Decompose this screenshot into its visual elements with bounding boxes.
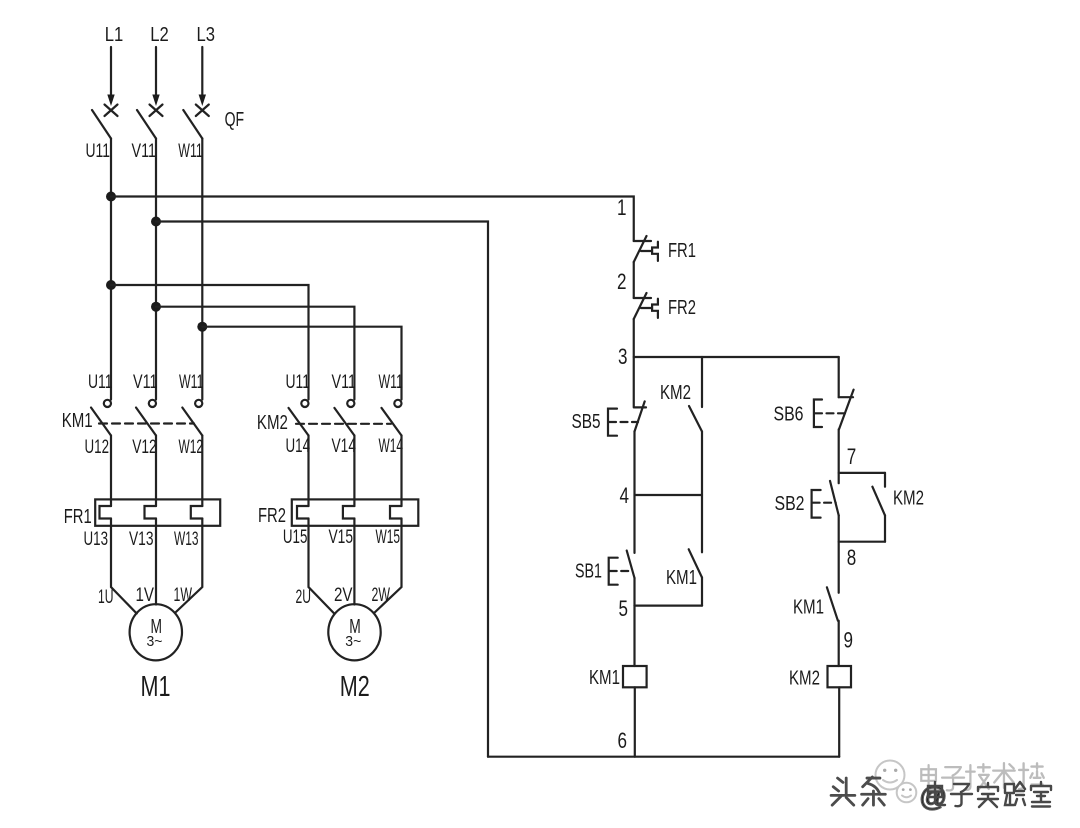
contactor KM1 pole W fixed contact bbox=[195, 400, 202, 407]
contactor KM1 pole U blade bbox=[91, 408, 111, 436]
motor M1 circle bbox=[130, 604, 182, 660]
svg-text:1U: 1U bbox=[98, 587, 114, 608]
svg-text:KM2: KM2 bbox=[893, 488, 924, 510]
svg-text:W11: W11 bbox=[178, 141, 203, 162]
svg-text:1W: 1W bbox=[174, 585, 193, 606]
svg-text:2W: 2W bbox=[372, 585, 391, 606]
thermal contact FR2 fixed tick bbox=[634, 297, 651, 299]
svg-text:SB6: SB6 bbox=[774, 404, 804, 426]
wire node 5 rung bbox=[635, 604, 703, 606]
FR2 heater element W bbox=[390, 506, 402, 519]
wire phase W vertical bbox=[201, 139, 203, 400]
wire KM2 aux to KM1 aux bbox=[701, 432, 703, 553]
pushbutton SB5 blade bbox=[635, 401, 645, 431]
pushbutton SB6 actuator bracket bbox=[814, 400, 822, 428]
wire KM1-W to FR1 bbox=[201, 436, 203, 507]
wire KM1-U to FR1 bbox=[110, 436, 112, 507]
svg-text:U15: U15 bbox=[283, 527, 308, 548]
svg-text:9: 9 bbox=[844, 628, 854, 653]
wire SB5 to SB1 bbox=[633, 432, 635, 553]
wire KM1 aux lower bbox=[701, 578, 703, 606]
wire FR2-W to motor M2 bbox=[375, 519, 402, 613]
wire KM2 aux branch upper bbox=[701, 357, 703, 407]
svg-text:V11: V11 bbox=[132, 141, 157, 162]
svg-text:8: 8 bbox=[847, 545, 857, 570]
wire KM1 coil to bottom bus bbox=[634, 687, 636, 756]
pushbutton SB1 blade bbox=[627, 551, 635, 579]
contactor KM2 pole U fixed contact bbox=[301, 400, 308, 407]
svg-text:FR1: FR1 bbox=[668, 240, 696, 262]
pushbutton SB5 fixed tick bbox=[635, 406, 647, 408]
wire SB1 to KM1 coil bbox=[633, 578, 635, 666]
svg-text:U11: U11 bbox=[286, 372, 311, 393]
svg-text:5: 5 bbox=[619, 596, 629, 621]
svg-text:7: 7 bbox=[847, 444, 857, 469]
svg-text:U12: U12 bbox=[85, 437, 110, 458]
svg-text:L2: L2 bbox=[150, 24, 169, 46]
pushbutton SB2 actuator link (dashed) bbox=[813, 502, 836, 504]
wire FR1-W to motor M1 bbox=[175, 519, 202, 613]
wire node1-node2 bbox=[633, 262, 635, 298]
pushbutton SB6 blade bbox=[839, 390, 854, 430]
FR2 heater element V bbox=[343, 506, 355, 519]
wire SB2 to KM1 interlock bbox=[838, 515, 840, 592]
contactor KM1 pole V blade bbox=[136, 408, 156, 436]
svg-text:W11: W11 bbox=[379, 372, 404, 393]
wire feeder V to M2 branch bbox=[156, 307, 354, 400]
wire KM2-V to FR2 bbox=[353, 436, 355, 507]
thermal relay FR1 box bbox=[95, 499, 220, 525]
contact KM1 aux blade bbox=[689, 549, 702, 577]
svg-text:V11: V11 bbox=[133, 372, 158, 393]
wire node 7 rung bbox=[839, 472, 885, 474]
wire KM2 coil to bottom bus bbox=[838, 687, 840, 756]
svg-text:KM2: KM2 bbox=[789, 668, 820, 690]
wire L1 incoming drop with arrowhead bbox=[107, 47, 114, 106]
svg-text:4: 4 bbox=[620, 483, 630, 508]
contact KM2 latch blade bbox=[872, 487, 885, 516]
wire node 4 rung bbox=[635, 494, 703, 496]
junction dot node V-control bbox=[151, 217, 161, 227]
wire phase V vertical bbox=[155, 139, 157, 400]
contactor KM1 pole W blade bbox=[182, 408, 202, 436]
contactor KM2 pole U blade bbox=[289, 408, 309, 436]
svg-text:KM1: KM1 bbox=[793, 597, 824, 619]
wire KM2 latch bottom rung bbox=[839, 541, 885, 543]
svg-text:U14: U14 bbox=[286, 436, 311, 457]
svg-text:V15: V15 bbox=[329, 527, 354, 548]
svg-text:W12: W12 bbox=[179, 437, 204, 458]
contact KM1 interlock blade bbox=[827, 587, 838, 620]
wire KM2 latch branch upper bbox=[884, 473, 886, 487]
svg-text:FR2: FR2 bbox=[258, 505, 286, 527]
thermal contact FR1 link tick bbox=[641, 250, 652, 252]
watermark dark text 条 bbox=[862, 777, 886, 805]
svg-text:1: 1 bbox=[617, 195, 627, 220]
svg-text:2V: 2V bbox=[334, 585, 353, 606]
svg-text:V13: V13 bbox=[129, 529, 154, 550]
watermark light text row (brand characters) bbox=[921, 763, 1044, 790]
svg-text:3: 3 bbox=[618, 344, 628, 369]
FR1 heater element U bbox=[100, 506, 112, 519]
svg-text:L3: L3 bbox=[197, 24, 216, 46]
svg-text:V12: V12 bbox=[132, 437, 157, 458]
wire KM2-U to FR2 bbox=[307, 436, 309, 507]
wire L2 incoming drop with arrowhead bbox=[152, 47, 159, 106]
pushbutton SB1 actuator bracket bbox=[609, 558, 618, 585]
svg-text:3~: 3~ bbox=[345, 633, 361, 650]
svg-text:L1: L1 bbox=[105, 24, 124, 46]
wire SB6 to node 7 bbox=[838, 429, 840, 483]
svg-text:W11: W11 bbox=[179, 372, 204, 393]
breaker QF pole 3 blade bbox=[183, 110, 202, 139]
junction dot node W-M2 bbox=[197, 322, 207, 332]
wire feeder W to M2 branch bbox=[202, 327, 401, 400]
svg-text:SB5: SB5 bbox=[572, 411, 601, 433]
wire FR2-V to motor M2 bbox=[353, 519, 355, 605]
pushbutton SB5 actuator bracket bbox=[608, 409, 617, 436]
svg-text:2U: 2U bbox=[296, 587, 312, 608]
motor M2 circle bbox=[328, 604, 380, 660]
contactor KM1 mechanical link (dashed) bbox=[99, 422, 194, 424]
svg-text:FR1: FR1 bbox=[64, 506, 92, 528]
thermal relay FR2 box bbox=[292, 499, 419, 525]
thermal contact FR1 fixed tick bbox=[634, 240, 651, 242]
pushbutton SB6 actuator link (dashed) bbox=[815, 412, 845, 414]
wire KM2-W to FR2 bbox=[400, 436, 402, 507]
thermal contact FR2 trip symbol bbox=[652, 299, 658, 318]
svg-text:SB2: SB2 bbox=[775, 493, 805, 515]
watermark dark text row (account characters) bbox=[928, 782, 1051, 807]
breaker QF pole 2 blade bbox=[137, 110, 156, 139]
thermal contact FR2 blade bbox=[634, 293, 647, 319]
pushbutton SB5 actuator link (dashed) bbox=[609, 421, 638, 423]
wire control feeder from U phase to node 1 bbox=[111, 197, 634, 242]
contactor KM2 pole W blade bbox=[382, 408, 402, 436]
contactor KM1 pole V fixed contact bbox=[149, 400, 156, 407]
svg-text:W13: W13 bbox=[174, 529, 199, 550]
svg-text:U11: U11 bbox=[86, 141, 111, 162]
wire L3 incoming drop with arrowhead bbox=[199, 47, 206, 106]
junction dot node V-M2 bbox=[151, 302, 161, 312]
wire KM1 interlock to KM2 coil bbox=[838, 621, 840, 666]
pushbutton SB2 actuator bracket bbox=[812, 490, 821, 518]
breaker QF pole 1 X contact bbox=[105, 105, 118, 117]
watermark logo circle large bbox=[876, 761, 905, 790]
breaker QF pole 1 blade bbox=[92, 110, 111, 139]
svg-text:W14: W14 bbox=[379, 436, 404, 457]
wire KM1-V to FR1 bbox=[155, 436, 157, 507]
wire feeder U to M2 branch bbox=[111, 285, 309, 400]
svg-text:M1: M1 bbox=[141, 671, 171, 703]
breaker QF pole 3 X contact bbox=[196, 105, 209, 117]
contactor KM2 pole V fixed contact bbox=[347, 400, 354, 407]
svg-text:FR2: FR2 bbox=[668, 297, 696, 319]
svg-text:KM1: KM1 bbox=[666, 567, 697, 589]
contact KM2 aux blade bbox=[689, 406, 702, 432]
svg-text:KM1: KM1 bbox=[62, 410, 93, 432]
svg-text:QF: QF bbox=[225, 109, 245, 131]
thermal contact FR1 trip symbol bbox=[652, 242, 658, 261]
wire phase U vertical bbox=[110, 139, 112, 400]
FR1 heater element W bbox=[191, 506, 203, 519]
wire KM2 latch lower bbox=[884, 515, 886, 541]
thermal contact FR1 blade bbox=[634, 236, 647, 262]
svg-text:3~: 3~ bbox=[147, 633, 163, 650]
wire FR1-V to motor M1 bbox=[155, 519, 157, 605]
svg-text:SB1: SB1 bbox=[575, 561, 602, 583]
FR2 heater element U bbox=[297, 506, 309, 519]
svg-text:V14: V14 bbox=[332, 436, 357, 457]
svg-text:2: 2 bbox=[617, 269, 627, 294]
FR1 heater element V bbox=[145, 506, 157, 519]
watermark dark text 头 bbox=[831, 777, 885, 805]
svg-text:1V: 1V bbox=[136, 585, 155, 606]
svg-text:W15: W15 bbox=[376, 527, 401, 548]
svg-text:M2: M2 bbox=[340, 671, 370, 703]
wire control feeder from V phase down the left riser bbox=[156, 222, 488, 757]
svg-text:KM2: KM2 bbox=[257, 412, 288, 434]
watermark logo circle small bbox=[897, 783, 917, 803]
contactor KM2 pole W fixed contact bbox=[394, 400, 401, 407]
contactor KM1 pole U fixed contact bbox=[104, 400, 111, 407]
pushbutton SB6 fixed tick bbox=[839, 396, 853, 398]
junction dot node U-M2 bbox=[106, 280, 116, 290]
thermal contact FR2 link tick bbox=[641, 307, 652, 309]
svg-text:U11: U11 bbox=[88, 372, 113, 393]
wire FR1-U to motor M1 bbox=[111, 519, 137, 614]
svg-text:KM2: KM2 bbox=[660, 382, 691, 404]
svg-text:V11: V11 bbox=[332, 372, 357, 393]
wire FR2-U to motor M2 bbox=[309, 519, 335, 614]
wire node 3 bus bbox=[634, 356, 839, 358]
wire node3 to SB6 bbox=[838, 357, 840, 397]
wire bottom return bus bbox=[488, 756, 839, 758]
contactor KM2 pole V blade bbox=[334, 408, 354, 436]
pushbutton SB1 actuator link (dashed) bbox=[610, 570, 633, 572]
contactor KM2 mechanical link (dashed) bbox=[296, 423, 391, 425]
coil KM2 box bbox=[828, 666, 852, 687]
svg-text:U13: U13 bbox=[84, 529, 109, 550]
pushbutton SB2 blade bbox=[830, 481, 839, 516]
junction dot node U-control bbox=[106, 192, 116, 202]
svg-text:6: 6 bbox=[618, 728, 628, 753]
wire node2 to SB5 bbox=[633, 319, 635, 407]
coil KM1 box bbox=[623, 666, 647, 687]
svg-text:KM1: KM1 bbox=[589, 667, 620, 689]
breaker QF pole 2 X contact bbox=[150, 105, 163, 117]
